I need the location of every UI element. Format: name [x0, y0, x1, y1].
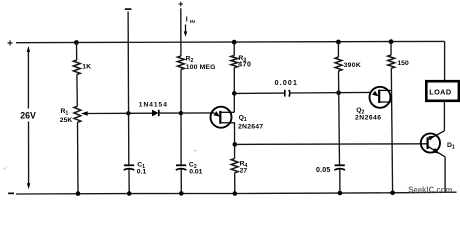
transistor Q2 base2 lead — [379, 89, 391, 91]
svg-text:2N2647: 2N2647 — [238, 123, 263, 130]
diode 1N4154 cathode bar — [158, 110, 160, 116]
transistor Q1 base bar — [219, 111, 221, 124]
wire 390K to 0.05 — [339, 71, 340, 165]
junction dot C2 bottom rail — [179, 191, 184, 196]
scan speck bottom left — [4, 168, 6, 170]
svg-text:1K: 1K — [82, 64, 91, 71]
junction dot R1 bottom rail — [76, 191, 81, 196]
junction dot base row left — [233, 142, 238, 147]
wire top supply rail — [16, 41, 445, 42]
wire wiper row to diode — [87, 112, 152, 114]
resistor R1 25K potentiometer — [74, 106, 81, 122]
wire diode to R2 junction — [159, 112, 181, 114]
resistor 150 — [388, 55, 395, 68]
resistor R4 27 — [231, 159, 238, 173]
svg-text:470: 470 — [238, 61, 251, 68]
junction dot wiper row minus line — [126, 111, 130, 115]
capacitor C1 bottom plate — [124, 169, 135, 170]
svg-text:0.01: 0.01 — [189, 169, 202, 176]
diode 1N4154 triangle — [152, 110, 159, 117]
source B1 bottom arrowhead — [27, 183, 30, 189]
wire + input vertical — [180, 8, 182, 56]
transistor Q1 emitter arrowhead — [213, 111, 220, 117]
capacitor 0.001 right plate — [288, 90, 291, 97]
svg-text:I: I — [186, 17, 188, 24]
transistor Q1 base2 lead — [220, 111, 234, 113]
svg-text:SeekIC.com: SeekIC.com — [408, 185, 452, 194]
transistor D1 collector lead — [428, 131, 445, 140]
capacitor 0.05 bottom plate — [334, 169, 345, 170]
wire rail to 390K — [337, 42, 339, 57]
wire D1 emitter to bottom rail — [444, 157, 446, 192]
wire rail to R3 — [233, 42, 235, 55]
svg-text:0.001: 0.001 — [275, 80, 299, 87]
wire C1 to bottom rail — [128, 170, 130, 194]
transistor Q2 base1 lead — [379, 101, 392, 103]
transistor D1 base bar — [427, 137, 429, 149]
svg-text:IN: IN — [190, 19, 196, 25]
wire 150 to bottom rail tangent Q2 — [391, 68, 392, 193]
node - input terminal — [125, 8, 132, 10]
svg-text:2N2646: 2N2646 — [355, 115, 382, 122]
node - terminal bottom left — [8, 193, 14, 195]
wire C2 to bottom rail — [180, 170, 182, 194]
transistor D1 emitter lead — [428, 146, 446, 157]
wire 0.05 to bottom rail — [339, 170, 341, 194]
junction dot R2 wiper row — [179, 111, 183, 115]
transistor Q2 emitter arrowhead — [372, 91, 379, 97]
wire - input vertical — [127, 12, 130, 166]
wire R3 to Q1 base2 — [233, 68, 235, 113]
wire top rail drop to LOAD — [444, 41, 446, 81]
capacitor C1 top plate — [124, 164, 134, 166]
scan speck C2 right — [194, 150, 197, 151]
wire 0.001 row left — [234, 92, 284, 94]
wire R2 to C2 — [180, 70, 182, 166]
svg-text:27: 27 — [240, 167, 248, 174]
transistor Q1 circle — [211, 107, 232, 128]
wire Q1 base1 to R4 — [234, 123, 236, 159]
wire rail to 1K — [76, 43, 78, 61]
source B1 26V line upper — [27, 50, 29, 109]
junction dot 390K top rail — [336, 40, 341, 45]
wire rail to 150 — [390, 42, 392, 55]
wire 0.001 row right — [289, 91, 370, 94]
svg-text:+: + — [178, 0, 183, 9]
svg-text:0.05: 0.05 — [316, 167, 330, 174]
resistor R2 100 MEG — [178, 56, 185, 70]
transistor Q2 circle — [370, 87, 391, 108]
wire R4 to bottom rail — [234, 173, 236, 194]
junction dot 0.001 row left — [232, 91, 237, 96]
junction dot Q2 bottom rail — [390, 191, 395, 196]
resistor 1K — [73, 60, 80, 75]
capacitor C2 bottom plate — [176, 169, 187, 170]
junction dot R4 bottom rail — [233, 191, 238, 196]
svg-text:LOAD: LOAD — [429, 87, 451, 96]
resistor R3 470 — [231, 56, 238, 68]
transistor Q2 base bar — [378, 90, 380, 103]
svg-text:1N4154: 1N4154 — [139, 102, 168, 109]
capacitor 0.001 left plate — [284, 90, 286, 97]
capacitor 0.05 top plate — [335, 164, 345, 166]
wire 1K to R1 — [76, 75, 78, 107]
svg-text:26V: 26V — [20, 111, 36, 121]
wire base row to D1 — [235, 143, 428, 146]
transistor Q1 base1 lead — [220, 122, 235, 124]
resistor 390K — [335, 57, 342, 71]
transistor D1 circle — [421, 133, 440, 152]
load box — [426, 81, 459, 101]
junction dot 1K top rail — [74, 40, 79, 45]
junction dot 150 top rail — [389, 39, 394, 44]
svg-text:390K: 390K — [344, 62, 361, 69]
transistor D1 emitter arrowhead — [432, 148, 439, 154]
svg-text:0.1: 0.1 — [137, 169, 147, 176]
source B1 top arrowhead — [27, 46, 30, 52]
source B1 26V line lower — [28, 122, 30, 185]
transistor D1 collector arrowhead — [428, 136, 434, 141]
pot wiper arrowhead — [81, 111, 88, 115]
svg-text:25K: 25K — [60, 117, 73, 124]
svg-text:+: + — [7, 38, 13, 49]
wire R1 to bottom rail — [77, 122, 80, 193]
wire LOAD to D1 collector — [443, 101, 445, 131]
junction dot R3 top rail — [232, 40, 237, 45]
wire bottom return rail — [16, 192, 457, 194]
junction dot C1 bottom rail — [127, 191, 132, 196]
junction dot 0.05 bottom rail — [338, 191, 343, 196]
wire wiper row to Q1 emitter — [181, 112, 215, 114]
svg-text:150: 150 — [397, 60, 409, 67]
capacitor C2 top plate — [176, 164, 186, 166]
svg-text:100 MEG: 100 MEG — [186, 64, 216, 71]
junction dot 0.001 row 390K — [336, 90, 341, 95]
current arrow I_IN — [185, 25, 187, 33]
